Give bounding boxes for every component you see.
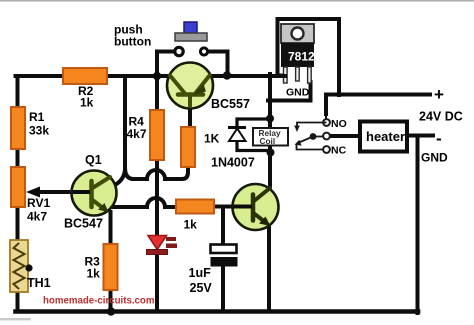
wire Q1 base inside circle — [72, 190, 90, 194]
relay pole pivot dot — [310, 133, 317, 140]
relay coil box — [253, 128, 288, 146]
wire push button right leg — [208, 52, 228, 77]
svg-text:4k7: 4k7 — [27, 210, 47, 224]
transistor T2 symbol: emitter diagonal down-right — [254, 214, 265, 223]
junction dot R3 at ground rail — [107, 307, 115, 315]
arrowhead of RV1 wiper pointing left — [26, 187, 40, 198]
transistor Q1 symbol: collector diagonal up-right — [93, 177, 111, 188]
wire rail from BC557 right side to main +12V vertical — [210, 74, 283, 78]
svg-text:RV1: RV1 — [27, 196, 50, 210]
thermistor TH1 body — [10, 240, 28, 292]
svg-text:1K: 1K — [204, 132, 220, 146]
wire branch from +24V corner down to NO contact — [326, 95, 339, 115]
wire left rail between RV1 and TH1 — [16, 207, 20, 241]
svg-text:24V DC: 24V DC — [419, 110, 463, 124]
push button left terminal — [175, 47, 183, 55]
wire Q1 emitter down branch to R3 — [109, 212, 113, 244]
transistor T2 symbol: emitter arrowhead — [259, 217, 271, 227]
transistor Q1 symbol: emitter arrowhead — [98, 203, 109, 212]
wire LED bottom to ground rail — [155, 253, 159, 311]
svg-text:33k: 33k — [29, 124, 49, 138]
svg-text:GND: GND — [421, 151, 448, 165]
transistor BC557 symbol: left (collector) diagonal — [170, 76, 185, 94]
wire Q1 collector stub into circle — [114, 169, 125, 186]
scan artifact top edge — [0, 0, 474, 2]
svg-text:TH1: TH1 — [27, 276, 51, 290]
node dot beside TH1 — [25, 264, 32, 271]
wire left rail TH1 to bottom rail corner — [16, 291, 20, 310]
wire capacitor top branch from base wire — [221, 207, 225, 246]
transistor Q1 symbol: base bar vertical — [89, 181, 94, 207]
wire LED branch: R4 bottom down to LED — [155, 160, 159, 236]
wire Q1 base from RV1 arrow to circle — [36, 190, 90, 194]
LED light dash 2 — [166, 244, 177, 249]
svg-text:NC: NC — [331, 145, 347, 157]
relay pole link to common circle — [313, 136, 323, 138]
wire overlay crossing pin 1 — [270, 74, 287, 78]
push button blue cap — [184, 22, 197, 34]
transistor BC557 symbol: base bar — [178, 92, 203, 97]
capacitor 1uF top plate — [211, 245, 237, 254]
wire R4 top to rail junction — [155, 74, 159, 110]
wire common contact to heater — [330, 134, 361, 138]
wire 1k resistor right to T2 base — [214, 205, 250, 209]
wire T2 base inside circle — [233, 205, 252, 209]
resistor 1K (vertical, BC557 base) — [181, 127, 195, 167]
relay common (pole) contact circle — [323, 133, 330, 140]
svg-text:1k: 1k — [80, 96, 94, 110]
svg-text:NO: NO — [331, 118, 347, 130]
IC 7812 pin 3 (output) — [308, 67, 312, 83]
wire diode bottom branch — [237, 140, 268, 151]
resistor R3 (1k vertical) — [104, 244, 118, 290]
svg-text:Coil: Coil — [260, 136, 276, 146]
svg-text:1uF: 1uF — [189, 266, 212, 280]
transistor T2 symbol: base bar vertical — [251, 195, 256, 221]
transistor BC557 body circle — [167, 63, 213, 109]
svg-text:+: + — [434, 85, 444, 104]
wire top-left horizontal to R2 — [16, 74, 65, 78]
LED cathode bar — [147, 250, 168, 255]
IC 7812 pin 1 (input) — [284, 67, 288, 83]
thermistor TH1 zigzag — [14, 243, 25, 289]
relay lever arm to NC with arrowhead — [299, 137, 313, 143]
svg-text:1k: 1k — [184, 218, 198, 232]
wire +24V horizontal to plus terminal — [337, 93, 430, 97]
svg-text:GND: GND — [286, 87, 310, 99]
junction dot diode/relay bottom — [267, 149, 275, 157]
junction dot pushbutton-right/rail — [223, 71, 231, 79]
svg-text:BC557: BC557 — [211, 97, 250, 111]
transistor BC557 symbol: base stem — [188, 96, 192, 107]
IC 7812 metal tab — [281, 24, 314, 43]
push button right terminal — [200, 48, 207, 55]
transistor Q1 symbol: emitter diagonal down-right — [93, 200, 106, 210]
wire R2 right to BC557 emitter rail — [106, 74, 170, 78]
svg-text:4k7: 4k7 — [127, 127, 147, 141]
wire diode top branch — [237, 119, 268, 128]
transistor T2 symbol: collector diagonal up-right — [254, 188, 270, 201]
IC 7812 black body — [281, 43, 314, 67]
wire node A vertical from rail down to Q1 collector corner — [125, 76, 134, 179]
transistor BC557 symbol: right (emitter) diagonal — [196, 76, 210, 93]
svg-text:7812: 7812 — [288, 50, 315, 64]
wire horizontal y179 with hop over LED line, to 1K bottom — [133, 166, 188, 179]
wire thin stub into NO contact — [325, 112, 327, 119]
svg-text:heater: heater — [366, 129, 405, 144]
IC 7812 mounting hole — [292, 28, 304, 40]
svg-text:R1: R1 — [29, 110, 45, 124]
wire push button left leg — [157, 52, 175, 77]
wire Q1 emitter right branch y207 with hop, to 1k resistor — [108, 198, 176, 207]
wire T2 emitter down to ground rail — [267, 228, 271, 311]
scan artifact bottom-left smudge — [0, 318, 31, 320]
potentiometer RV1 (4k7 vertical) — [11, 167, 25, 207]
relay NO contact circle — [323, 119, 330, 126]
diode 1N4007 triangle — [229, 129, 246, 142]
svg-text:homemade-circuits.com: homemade-circuits.com — [43, 296, 155, 307]
junction dot diode/relay top — [266, 115, 274, 123]
transistor BC557 symbol: emitter arrowhead pointing at base — [194, 84, 206, 95]
push button grey base — [175, 33, 207, 41]
resistor 1k (horizontal, T2 base) — [176, 200, 214, 214]
relay NO arrow path going left then down — [297, 123, 327, 128]
junction dot R4/pushbutton/rail — [153, 72, 161, 80]
resistor R4 (4k7 vertical) — [150, 110, 164, 160]
transistor Q1 body circle — [72, 171, 117, 216]
wire 7812 output pin down and left to main vertical — [268, 82, 311, 101]
capacitor 1uF bottom plate — [211, 257, 238, 267]
resistor R1 (33k vertical) — [11, 107, 25, 149]
svg-text:Q1: Q1 — [85, 153, 102, 167]
svg-text:1N4007: 1N4007 — [211, 156, 255, 170]
wire bottom ground rail — [16, 309, 419, 314]
svg-text:BC547: BC547 — [64, 217, 103, 231]
svg-text:1k: 1k — [87, 267, 101, 281]
LED red triangle — [148, 236, 167, 250]
wire capacitor bottom to ground rail — [221, 266, 225, 311]
wire left rail top: from top-left corner down to R1 — [16, 78, 20, 107]
wire 7812 frame: left vertical, top, right vertical down to +24V corner — [278, 19, 340, 95]
wire R3 bottom to ground rail — [109, 290, 113, 311]
IC 7812 pin 2 (ground) — [296, 67, 300, 81]
LED light dash 1 — [166, 237, 176, 241]
wire right GND vertical — [416, 136, 420, 314]
svg-text:button: button — [114, 35, 151, 49]
diode 1N4007 cathode bar — [228, 126, 246, 129]
svg-text:-: - — [436, 129, 442, 148]
wire main vertical x270 relay bottom to transistor T2 — [268, 145, 272, 186]
wire heater right to minus terminal — [407, 134, 433, 138]
wire left rail between R1 and RV1 — [16, 149, 20, 167]
relay NC contact circle and its wire — [323, 146, 330, 153]
transistor T2 body circle — [233, 184, 279, 230]
heater box — [360, 122, 407, 152]
resistor R2 (1k horizontal top-left) — [63, 68, 107, 84]
wire BC557 base stem down to 1K — [188, 106, 192, 127]
wire main vertical x270 from rail to relay top dot — [268, 74, 272, 128]
svg-text:25V: 25V — [190, 281, 213, 295]
